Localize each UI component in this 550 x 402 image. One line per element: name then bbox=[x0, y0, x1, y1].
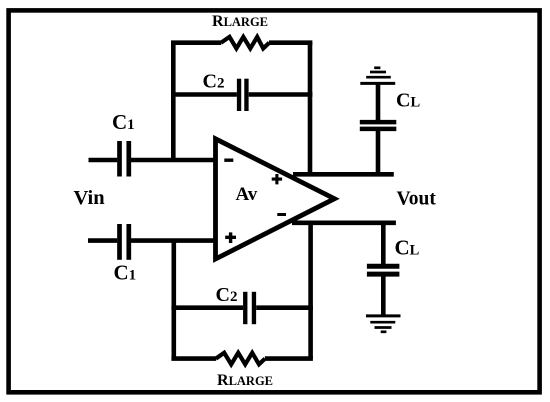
svg-text:CL: CL bbox=[396, 90, 420, 112]
svg-text:Vin: Vin bbox=[74, 187, 106, 209]
svg-text:C2: C2 bbox=[216, 284, 238, 306]
svg-text:RLARGE: RLARGE bbox=[217, 372, 273, 389]
svg-text:Vout: Vout bbox=[397, 189, 437, 210]
svg-text:RLARGE: RLARGE bbox=[212, 13, 268, 30]
svg-text:Av: Av bbox=[236, 184, 258, 205]
svg-text:C1: C1 bbox=[112, 110, 135, 134]
svg-text:C2: C2 bbox=[203, 70, 225, 92]
svg-text:C1: C1 bbox=[114, 261, 137, 285]
svg-text:CL: CL bbox=[395, 236, 420, 260]
